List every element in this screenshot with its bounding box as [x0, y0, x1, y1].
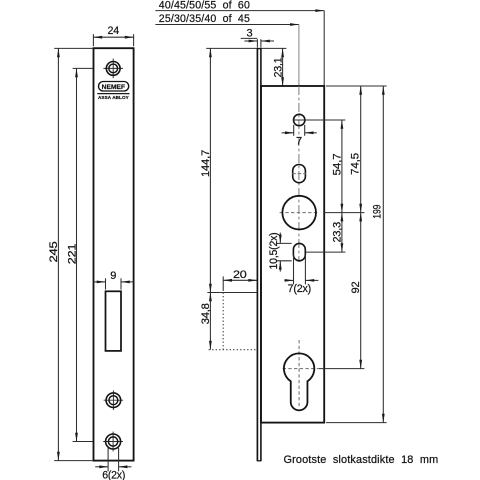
dim 245 [57, 48, 59, 460]
dim 34.8 [209, 293, 211, 350]
ext line slot lower to 23.3 [306, 251, 346, 253]
svg-text:74,5: 74,5 [349, 153, 361, 175]
screw S3 bottom cross [103, 441, 123, 443]
screw S3 bottom [106, 434, 121, 449]
svg-text:6(2x): 6(2x) [102, 470, 125, 480]
dim 92 [360, 213, 362, 369]
lock case body [261, 86, 324, 423]
svg-text:144,7: 144,7 [200, 150, 212, 177]
dim 7(2x) arrows [284, 279, 293, 281]
dim 9 arrows [93, 281, 105, 283]
hole D7 [294, 114, 305, 125]
dim 7 arrows [282, 132, 294, 134]
slot hole upper center tick [292, 173, 306, 175]
dim 3 arrows [244, 40, 257, 42]
latch box hidden left edge [222, 293, 224, 350]
ext line faceplate top (for 144.7 / 23.1) [206, 47, 286, 49]
svg-text:NEMEF: NEMEF [102, 84, 126, 91]
dim 221 extension bottom [73, 441, 104, 443]
euro cylinder hole [284, 353, 314, 410]
faceplate front view [94, 48, 134, 460]
cylinder centerline vertical [298, 340, 300, 408]
dim 6(2x) extension lines [107, 448, 109, 472]
faceplate side view inner line [260, 48, 262, 461]
ASSA ABLOY rule [97, 93, 129, 95]
screw S2 middle [106, 393, 121, 408]
dim 10.5(2x) arrows [279, 233, 281, 244]
dim 245 extension top [54, 47, 92, 49]
dim 7(2x) ext lines [293, 255, 295, 284]
faceplate side caps [257, 48, 261, 50]
dim 199 [382, 86, 384, 423]
ext case bottom right [326, 422, 387, 424]
svg-text:7(2x): 7(2x) [288, 283, 312, 295]
svg-text:3: 3 [246, 27, 252, 39]
dim 7 ext lines [293, 125, 295, 136]
dim 144.7 [209, 48, 211, 292]
hole axis center line upper [298, 25, 300, 87]
svg-text:Grootste slotkastdikte 18 mm: Grootste slotkastdikte 18 mm [284, 454, 439, 466]
svg-text:ASSA ABLOY: ASSA ABLOY [98, 95, 129, 100]
dim 245 extension bottom [54, 460, 92, 462]
slot hole lower [293, 243, 305, 260]
dim 54.7 [341, 120, 343, 213]
dim 3 ext stubs [256, 39, 258, 47]
hole D7 center tick [293, 119, 306, 121]
svg-text:40/45/50/55 of 60: 40/45/50/55 of 60 [159, 0, 250, 11]
svg-text:23,1: 23,1 [272, 57, 284, 77]
screw S1 top cross [103, 67, 123, 69]
dim 9 extension lines [105, 278, 107, 289]
svg-text:92: 92 [350, 281, 362, 293]
NEMEF logo oval [99, 82, 129, 92]
dim 74.5 [360, 86, 362, 213]
follower hole [282, 196, 316, 230]
dim 221 extension top [73, 67, 104, 69]
dim 24 extension lines [92, 34, 94, 46]
dim 24 [93, 36, 133, 38]
dim 20 ext [222, 276, 224, 291]
svg-text:20: 20 [233, 269, 247, 281]
svg-text:10,5(2x): 10,5(2x) [268, 233, 280, 270]
svg-text:25/30/35/40 of 45: 25/30/35/40 of 45 [159, 13, 250, 25]
dim 20 [223, 279, 257, 281]
svg-text:54,7: 54,7 [331, 153, 343, 175]
screw S2 middle cross [104, 399, 124, 401]
faceplate side view outer line [256, 48, 258, 461]
ext latch top [207, 292, 257, 294]
latch opening [106, 291, 122, 351]
svg-text:221: 221 [66, 244, 78, 265]
dim 23.3 [341, 213, 343, 253]
svg-text:199: 199 [372, 205, 384, 219]
hole axis center line through holes [298, 86, 300, 262]
svg-text:34,8: 34,8 [200, 303, 212, 324]
dim 23.1 [282, 48, 284, 86]
ext line hole D7 to 54.7 [306, 119, 346, 121]
cylinder centerline horizontal [283, 368, 319, 370]
follower centerline horizontal [280, 212, 319, 214]
svg-text:23,3: 23,3 [332, 222, 344, 243]
svg-text:24: 24 [108, 25, 120, 37]
leader case depth [323, 11, 325, 86]
dim 10.5(2x) ext lines [276, 242, 292, 244]
slot hole upper [293, 165, 306, 183]
latch box hidden bottom edge [209, 349, 258, 351]
screw S1 top [106, 62, 120, 76]
svg-text:7: 7 [296, 135, 302, 147]
dim 221 [76, 68, 78, 441]
svg-text:245: 245 [48, 241, 60, 262]
ext case top right [326, 85, 387, 87]
svg-text:9: 9 [110, 270, 116, 282]
dim 6(2x) arrows [95, 466, 108, 468]
